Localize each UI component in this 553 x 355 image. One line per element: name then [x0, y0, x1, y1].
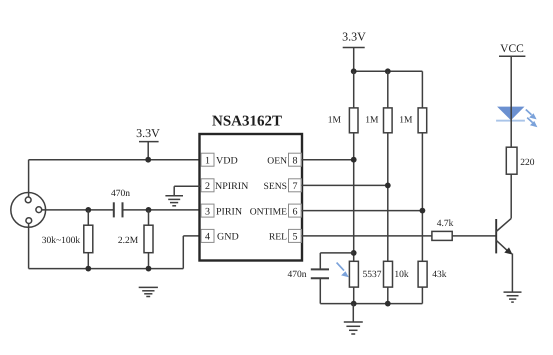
wire top-left rail to pin1 — [29, 159, 201, 161]
svg-text:10k: 10k — [394, 270, 409, 280]
svg-text:470n: 470n — [288, 270, 307, 280]
wire pin6 row — [302, 210, 423, 212]
node junction rail col2 — [385, 68, 391, 74]
node junction rail col1 — [351, 68, 357, 74]
power VCC — [499, 43, 525, 147]
svg-text:5537: 5537 — [363, 270, 382, 280]
wire col3 down — [421, 133, 423, 261]
node junction SENS col2 — [385, 183, 391, 189]
resistor R3 1M — [328, 71, 358, 133]
svg-text:ONTIME: ONTIME — [250, 206, 287, 217]
svg-text:1M: 1M — [365, 116, 379, 126]
capacitor C1 470n — [111, 189, 130, 217]
wire 220 to collector — [510, 174, 512, 218]
wire capacitor to pin3 — [124, 209, 202, 211]
capacitor C2 470n — [288, 269, 330, 280]
pin 2 NPIRIN — [201, 179, 248, 192]
pin 3 PIRIN — [201, 204, 242, 217]
wire emitter down — [511, 253, 513, 292]
arrow LED emit 1 — [526, 110, 537, 120]
pin 7 SENS — [264, 179, 302, 192]
svg-text:NSA3162T: NSA3162T — [212, 114, 282, 130]
wire 4.7k to base — [452, 235, 495, 237]
wire col2 down — [387, 133, 389, 261]
node junction cap col1 — [351, 250, 357, 256]
svg-text:VDD: VDD — [216, 156, 238, 167]
svg-text:470n: 470n — [111, 189, 130, 199]
ground left — [139, 287, 158, 296]
svg-text:1M: 1M — [399, 116, 413, 126]
node junction R-top 30k — [85, 207, 91, 213]
ground right — [504, 292, 522, 302]
svg-text:PIRIN: PIRIN — [216, 206, 242, 217]
pin 1 VDD — [201, 153, 238, 166]
resistor R6 4.7k — [432, 219, 454, 240]
wire bottom-left rail — [29, 268, 184, 270]
ground center — [344, 304, 363, 334]
power 3.3V center — [342, 30, 366, 72]
svg-text:3.3V: 3.3V — [136, 126, 160, 140]
svg-text:4: 4 — [205, 232, 210, 243]
svg-text:1: 1 — [205, 156, 210, 167]
svg-text:2.2M: 2.2M — [118, 236, 139, 246]
svg-text:1M: 1M — [328, 116, 342, 126]
wire cap bottom — [319, 278, 321, 303]
svg-text:GND: GND — [217, 232, 239, 243]
resistor R1 30k~100k — [42, 210, 93, 269]
svg-text:SENS: SENS — [264, 181, 287, 192]
svg-text:30k~100k: 30k~100k — [42, 236, 81, 246]
wire sensor bottom drop — [28, 224, 30, 269]
node junction on top-left rail — [145, 157, 151, 163]
wire pin2 to ground — [174, 186, 201, 195]
LED D1 — [496, 107, 525, 122]
resistor R5 1M — [399, 71, 426, 133]
transistor Q1 — [496, 218, 512, 254]
svg-text:VCC: VCC — [500, 43, 524, 55]
power 3.3V left — [136, 126, 160, 160]
resistor R10 220 — [506, 147, 535, 174]
wire pin5 row — [302, 235, 432, 237]
svg-text:3.3V: 3.3V — [342, 30, 366, 44]
wire pin8 row — [302, 159, 354, 161]
resistor R2 2.2M — [118, 210, 153, 269]
svg-text:REL: REL — [269, 232, 287, 243]
svg-text:2: 2 — [205, 181, 210, 192]
node junction rail 2.2M bottom — [146, 266, 152, 272]
pin 6 ONTIME — [250, 204, 302, 217]
svg-text:4.7k: 4.7k — [437, 219, 454, 229]
wire sensor out to capacitor — [42, 209, 114, 211]
node junction OEN col1 — [351, 157, 357, 163]
svg-text:5: 5 — [293, 232, 298, 243]
svg-text:6: 6 — [293, 206, 298, 217]
pin 5 REL — [269, 229, 302, 242]
svg-text:NPIRIN: NPIRIN — [215, 181, 248, 192]
arrow LDR light — [337, 263, 349, 278]
resistor R4 1M — [365, 71, 392, 133]
wire col1 down — [353, 133, 355, 261]
svg-text:7: 7 — [293, 181, 298, 192]
wire bottom center rail — [320, 287, 422, 304]
node junction ONTIME col3 — [420, 208, 426, 214]
svg-text:3: 3 — [205, 206, 210, 217]
pin 4 GND — [201, 229, 239, 242]
svg-text:220: 220 — [520, 158, 535, 168]
pin 8 OEN — [267, 153, 301, 166]
node junction R-top 2.2M — [146, 207, 152, 213]
wire pin7 row — [302, 184, 388, 186]
node junction rail col1 bottom — [351, 301, 357, 307]
photoresistor R7 5537 — [349, 261, 381, 287]
wire rail riser to pin4 — [183, 236, 201, 269]
arrow LED emit 2 — [527, 118, 537, 128]
wire top center rail — [354, 70, 423, 72]
wire cap branch — [320, 253, 353, 270]
svg-text:8: 8 — [293, 156, 298, 167]
ground pin2 — [165, 196, 183, 206]
wire left drop to sensor — [28, 160, 30, 197]
op-amp U1 NSA3162T body — [200, 134, 303, 261]
node junction rail col2 bottom — [385, 301, 391, 307]
svg-text:43k: 43k — [432, 270, 447, 280]
resistor R9 43k — [418, 261, 447, 287]
node junction rail 30k bottom — [85, 266, 91, 272]
svg-text:OEN: OEN — [267, 156, 287, 167]
resistor R8 10k — [384, 261, 409, 287]
PIR sensor detector — [11, 193, 46, 228]
